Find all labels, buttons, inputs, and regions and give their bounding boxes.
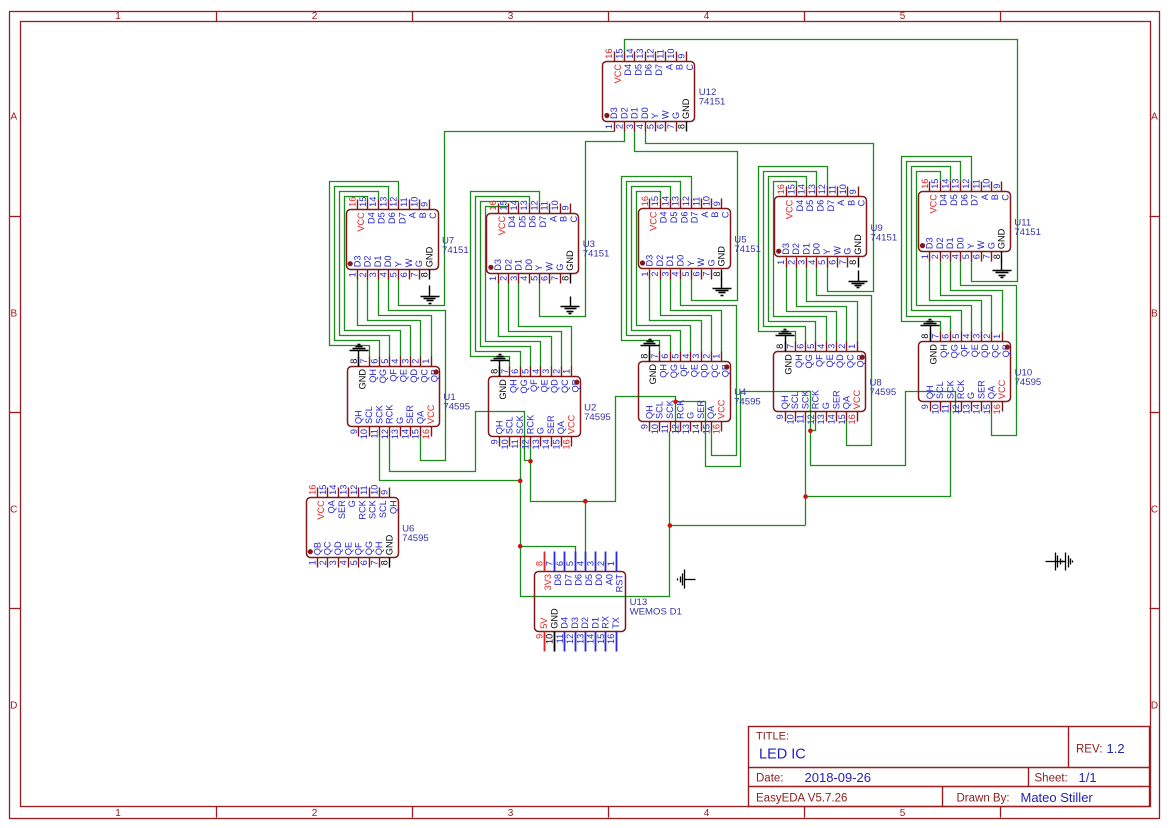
svg-text:9: 9: [380, 490, 390, 495]
svg-text:A: A: [548, 215, 558, 222]
svg-text:QE: QE: [343, 542, 353, 555]
svg-text:74595: 74595: [443, 402, 470, 413]
svg-text:QH: QH: [644, 405, 654, 419]
svg-text:1: 1: [308, 560, 318, 565]
svg-text:QH: QH: [388, 500, 398, 514]
svg-text:13: 13: [951, 179, 961, 189]
svg-text:GND: GND: [565, 250, 575, 271]
svg-text:7: 7: [500, 369, 510, 374]
svg-text:9: 9: [676, 54, 686, 59]
svg-text:C: C: [428, 212, 438, 219]
svg-text:1: 1: [847, 344, 857, 349]
svg-text:QH: QH: [368, 369, 378, 383]
svg-text:QF: QF: [679, 364, 689, 377]
svg-text:Y: Y: [534, 265, 544, 271]
svg-text:8: 8: [380, 560, 390, 565]
svg-text:Date:: Date:: [756, 773, 784, 785]
svg-text:D1: D1: [945, 237, 955, 249]
svg-text:QC: QC: [845, 354, 855, 368]
svg-text:D3: D3: [925, 237, 935, 249]
svg-text:16: 16: [640, 196, 650, 206]
svg-text:6: 6: [359, 560, 369, 565]
svg-text:QH: QH: [354, 410, 364, 424]
svg-text:9: 9: [992, 184, 1002, 189]
svg-text:3: 3: [328, 560, 338, 565]
svg-text:VCC: VCC: [316, 500, 326, 520]
svg-text:D7: D7: [970, 194, 980, 206]
svg-text:1: 1: [488, 276, 498, 281]
svg-text:QG: QG: [804, 354, 814, 368]
svg-text:QE: QE: [825, 354, 835, 367]
svg-text:G: G: [706, 259, 716, 266]
svg-text:D5: D5: [669, 212, 679, 224]
svg-text:Mateo Stiller: Mateo Stiller: [1021, 790, 1094, 805]
svg-text:12: 12: [389, 197, 399, 207]
svg-text:D5: D5: [517, 216, 527, 228]
svg-text:4: 4: [704, 808, 710, 819]
svg-text:D2: D2: [935, 237, 945, 249]
svg-text:RST: RST: [615, 574, 625, 593]
svg-text:2: 2: [318, 560, 328, 565]
svg-text:14: 14: [541, 439, 551, 449]
svg-text:QE: QE: [539, 379, 549, 392]
svg-text:14: 14: [797, 184, 807, 194]
svg-text:1: 1: [640, 272, 650, 277]
svg-text:7: 7: [359, 359, 369, 364]
svg-text:B: B: [10, 309, 17, 320]
svg-text:D5: D5: [584, 574, 594, 586]
svg-text:1: 1: [562, 369, 572, 374]
svg-text:D5: D5: [805, 200, 815, 212]
svg-text:QA: QA: [987, 385, 997, 399]
svg-text:74151: 74151: [734, 244, 761, 255]
svg-text:5: 5: [900, 11, 906, 22]
svg-text:B: B: [990, 194, 1000, 200]
svg-text:G: G: [986, 242, 996, 249]
svg-text:D1: D1: [801, 243, 811, 255]
svg-text:13: 13: [807, 184, 817, 194]
svg-text:16: 16: [348, 197, 358, 207]
svg-text:D3: D3: [609, 107, 619, 119]
svg-text:QH: QH: [925, 385, 935, 399]
svg-text:GND: GND: [929, 344, 939, 365]
svg-text:D0: D0: [524, 259, 534, 271]
svg-text:W: W: [832, 246, 842, 255]
svg-text:D4: D4: [560, 617, 570, 629]
svg-text:QF: QF: [354, 542, 364, 555]
svg-text:10: 10: [409, 197, 419, 207]
svg-text:VCC: VCC: [997, 379, 1007, 399]
svg-text:3: 3: [797, 260, 807, 265]
svg-text:D4: D4: [939, 194, 949, 206]
svg-text:D1: D1: [630, 107, 640, 119]
svg-text:7: 7: [930, 334, 940, 339]
svg-text:QC: QC: [323, 541, 333, 555]
svg-text:D6: D6: [679, 212, 689, 224]
svg-text:GND: GND: [717, 246, 727, 267]
svg-text:SCL: SCL: [505, 416, 515, 434]
svg-text:D2: D2: [655, 255, 665, 267]
svg-text:12: 12: [817, 184, 827, 194]
svg-text:3: 3: [541, 369, 551, 374]
svg-text:10: 10: [650, 424, 660, 434]
svg-text:D4: D4: [795, 200, 805, 212]
svg-text:15: 15: [930, 179, 940, 189]
svg-text:15: 15: [786, 184, 796, 194]
svg-text:G: G: [555, 264, 565, 271]
svg-text:11: 11: [828, 185, 838, 195]
svg-text:G: G: [395, 417, 405, 424]
svg-text:14: 14: [509, 200, 519, 210]
svg-text:W: W: [404, 258, 414, 267]
svg-text:8: 8: [775, 344, 785, 349]
svg-text:14: 14: [940, 179, 950, 189]
svg-text:D5: D5: [949, 194, 959, 206]
svg-text:GND: GND: [549, 608, 559, 629]
svg-text:QE: QE: [970, 344, 980, 357]
svg-text:13: 13: [961, 404, 971, 414]
svg-text:D7: D7: [654, 64, 664, 76]
svg-text:G: G: [843, 248, 853, 255]
svg-text:4: 4: [951, 254, 961, 259]
svg-text:2018-09-26: 2018-09-26: [805, 770, 872, 785]
svg-text:3: 3: [368, 272, 378, 277]
svg-text:4: 4: [378, 272, 388, 277]
svg-text:6: 6: [555, 561, 565, 566]
svg-text:GND: GND: [997, 228, 1007, 249]
svg-text:1: 1: [604, 124, 614, 129]
svg-text:9: 9: [490, 439, 500, 444]
svg-text:4: 4: [807, 260, 817, 265]
svg-text:D1: D1: [373, 255, 383, 267]
svg-text:5: 5: [806, 344, 816, 349]
svg-text:4: 4: [635, 124, 645, 129]
svg-text:SER: SER: [831, 390, 841, 409]
svg-text:SCL: SCL: [364, 406, 374, 424]
svg-text:9: 9: [420, 202, 430, 207]
svg-text:5: 5: [681, 272, 691, 277]
svg-text:9: 9: [920, 404, 930, 409]
svg-text:D2: D2: [791, 243, 801, 255]
svg-text:D6: D6: [816, 200, 826, 212]
svg-text:B: B: [559, 216, 569, 222]
svg-text:2: 2: [551, 369, 561, 374]
svg-text:QG: QG: [949, 344, 959, 358]
svg-text:C: C: [1001, 194, 1011, 201]
svg-text:5: 5: [951, 334, 961, 339]
svg-text:C: C: [10, 505, 17, 516]
svg-text:1/1: 1/1: [1079, 770, 1097, 785]
svg-text:QH: QH: [494, 420, 504, 434]
svg-text:D7: D7: [563, 574, 573, 586]
svg-text:8: 8: [676, 124, 686, 129]
svg-text:3: 3: [660, 272, 670, 277]
svg-text:4: 4: [681, 354, 691, 359]
svg-text:GND: GND: [424, 246, 434, 267]
svg-text:D3: D3: [645, 255, 655, 267]
svg-text:D5: D5: [377, 212, 387, 224]
svg-text:5V: 5V: [539, 617, 549, 629]
svg-text:4: 4: [671, 272, 681, 277]
svg-text:C: C: [685, 64, 695, 71]
svg-text:C: C: [1151, 505, 1158, 516]
svg-text:SCK: SCK: [800, 389, 810, 409]
svg-text:7: 7: [409, 272, 419, 277]
svg-text:A: A: [1151, 112, 1158, 123]
svg-text:REV:: REV:: [1076, 744, 1102, 756]
svg-text:15: 15: [551, 439, 561, 449]
svg-text:8: 8: [712, 272, 722, 277]
svg-text:W: W: [976, 240, 986, 249]
svg-text:SER: SER: [976, 380, 986, 399]
svg-text:D: D: [10, 701, 17, 712]
svg-text:14: 14: [660, 196, 670, 206]
svg-text:D6: D6: [959, 194, 969, 206]
svg-text:RCK: RCK: [811, 389, 821, 409]
svg-text:11: 11: [971, 179, 981, 189]
svg-text:RX: RX: [601, 616, 611, 629]
svg-text:7: 7: [785, 344, 795, 349]
svg-text:13: 13: [635, 48, 645, 58]
svg-text:11: 11: [555, 634, 565, 644]
svg-text:1: 1: [115, 11, 121, 22]
svg-text:D7: D7: [690, 212, 700, 224]
svg-text:2: 2: [596, 561, 606, 566]
svg-text:8: 8: [920, 334, 930, 339]
svg-text:QG: QG: [519, 379, 529, 393]
svg-text:2: 2: [358, 272, 368, 277]
svg-text:9: 9: [534, 634, 544, 639]
svg-text:16: 16: [992, 404, 1002, 414]
svg-text:74595: 74595: [584, 412, 611, 423]
svg-text:11: 11: [941, 404, 951, 414]
svg-text:5: 5: [671, 354, 681, 359]
svg-text:74151: 74151: [583, 249, 610, 260]
svg-text:C: C: [569, 215, 579, 222]
svg-text:6: 6: [510, 369, 520, 374]
svg-text:7: 7: [650, 354, 660, 359]
svg-text:G: G: [536, 427, 546, 434]
svg-text:10: 10: [500, 439, 510, 449]
svg-text:5: 5: [565, 561, 575, 566]
svg-text:74151: 74151: [699, 97, 726, 108]
svg-text:QD: QD: [550, 379, 560, 393]
svg-text:A0: A0: [604, 574, 614, 585]
svg-text:6: 6: [370, 359, 380, 364]
svg-text:QE: QE: [399, 369, 409, 382]
svg-text:D5: D5: [633, 64, 643, 76]
svg-text:VCC: VCC: [928, 194, 938, 214]
svg-text:D0: D0: [676, 255, 686, 267]
svg-text:16: 16: [606, 634, 616, 644]
svg-text:6: 6: [656, 124, 666, 129]
svg-text:8: 8: [640, 354, 650, 359]
svg-text:SCK: SCK: [946, 379, 956, 399]
svg-text:9: 9: [640, 424, 650, 429]
svg-text:GND: GND: [385, 534, 395, 555]
svg-text:2: 2: [312, 11, 318, 22]
svg-text:16: 16: [847, 414, 857, 424]
svg-text:12: 12: [349, 485, 359, 495]
svg-text:GND: GND: [784, 354, 794, 375]
svg-text:A: A: [980, 193, 990, 200]
svg-text:4: 4: [961, 334, 971, 339]
svg-text:1: 1: [115, 808, 121, 819]
svg-text:12: 12: [806, 414, 816, 424]
svg-text:12: 12: [380, 429, 390, 439]
svg-text:6: 6: [691, 272, 701, 277]
svg-text:VCC: VCC: [426, 404, 436, 424]
svg-text:6: 6: [828, 260, 838, 265]
svg-text:QF: QF: [960, 344, 970, 357]
svg-text:QH: QH: [509, 379, 519, 393]
svg-text:D2: D2: [619, 107, 629, 119]
svg-text:5: 5: [389, 272, 399, 277]
svg-text:9: 9: [560, 205, 570, 210]
svg-text:5: 5: [645, 124, 655, 129]
svg-text:5: 5: [349, 560, 359, 565]
svg-text:QD: QD: [409, 369, 419, 383]
svg-text:11: 11: [359, 485, 369, 495]
svg-text:G: G: [821, 402, 831, 409]
svg-text:15: 15: [318, 485, 328, 495]
svg-text:QG: QG: [378, 369, 388, 383]
svg-text:6: 6: [540, 276, 550, 281]
svg-text:A: A: [664, 63, 674, 70]
svg-text:SCK: SCK: [665, 399, 675, 419]
svg-text:2: 2: [930, 254, 940, 259]
svg-text:10: 10: [702, 196, 712, 206]
svg-text:8: 8: [490, 369, 500, 374]
svg-text:15: 15: [650, 196, 660, 206]
svg-text:7: 7: [666, 124, 676, 129]
svg-text:LED IC: LED IC: [759, 747, 806, 763]
svg-text:C: C: [721, 211, 731, 218]
svg-text:13: 13: [339, 485, 349, 495]
svg-text:SER: SER: [337, 500, 347, 519]
svg-text:10: 10: [666, 48, 676, 58]
svg-text:G: G: [414, 260, 424, 267]
svg-text:10: 10: [982, 179, 992, 189]
svg-text:VCC: VCC: [717, 399, 727, 419]
svg-text:GND: GND: [681, 98, 691, 119]
svg-text:D0: D0: [383, 255, 393, 267]
svg-text:1: 1: [421, 359, 431, 364]
svg-text:Y: Y: [650, 113, 660, 119]
svg-text:12: 12: [565, 634, 575, 644]
svg-text:QF: QF: [529, 379, 539, 392]
svg-text:13: 13: [378, 197, 388, 207]
svg-text:D2: D2: [363, 255, 373, 267]
svg-text:13: 13: [671, 196, 681, 206]
svg-text:GND: GND: [358, 369, 368, 390]
svg-text:8: 8: [848, 260, 858, 265]
svg-text:4: 4: [531, 369, 541, 374]
svg-text:D3: D3: [570, 617, 580, 629]
svg-text:3V3: 3V3: [543, 574, 553, 590]
svg-text:3: 3: [972, 334, 982, 339]
svg-text:5: 5: [521, 369, 531, 374]
svg-text:16: 16: [562, 439, 572, 449]
svg-text:Y: Y: [394, 261, 404, 267]
svg-text:RCK: RCK: [385, 404, 395, 424]
svg-text:4: 4: [519, 276, 529, 281]
svg-text:QB: QB: [312, 542, 322, 555]
svg-text:G: G: [671, 112, 681, 119]
svg-text:Y: Y: [966, 243, 976, 249]
svg-text:D1: D1: [514, 259, 524, 271]
svg-text:VCC: VCC: [785, 199, 795, 219]
svg-text:2: 2: [312, 808, 318, 819]
svg-text:12: 12: [529, 200, 539, 210]
svg-text:11: 11: [510, 439, 520, 449]
svg-text:13: 13: [575, 634, 585, 644]
svg-text:QF: QF: [388, 369, 398, 382]
svg-text:D4: D4: [366, 212, 376, 224]
svg-text:QD: QD: [835, 354, 845, 368]
svg-text:15: 15: [411, 429, 421, 439]
svg-text:12: 12: [521, 439, 531, 449]
svg-text:QC: QC: [991, 344, 1001, 358]
svg-text:W: W: [545, 262, 555, 271]
svg-text:2: 2: [650, 272, 660, 277]
svg-text:SER: SER: [405, 405, 415, 424]
svg-text:D8: D8: [553, 574, 563, 586]
svg-text:12: 12: [645, 48, 655, 58]
svg-text:QG: QG: [669, 364, 679, 378]
svg-text:2: 2: [499, 276, 509, 281]
svg-text:D7: D7: [397, 212, 407, 224]
svg-text:QG: QG: [364, 541, 374, 555]
svg-text:D6: D6: [574, 574, 584, 586]
svg-text:5: 5: [380, 359, 390, 364]
svg-text:5: 5: [900, 808, 906, 819]
svg-text:RCK: RCK: [357, 499, 367, 519]
svg-text:12: 12: [671, 424, 681, 434]
svg-text:11: 11: [656, 49, 666, 59]
svg-text:14: 14: [625, 48, 635, 58]
svg-text:GND: GND: [648, 364, 658, 385]
svg-text:SCK: SCK: [515, 414, 525, 434]
svg-text:Sheet:: Sheet:: [1035, 773, 1068, 785]
svg-text:5: 5: [529, 276, 539, 281]
svg-text:QH: QH: [374, 541, 384, 555]
svg-text:14: 14: [400, 429, 410, 439]
svg-text:12: 12: [951, 404, 961, 414]
svg-text:2: 2: [837, 344, 847, 349]
svg-text:SCL: SCL: [378, 500, 388, 518]
svg-text:10: 10: [930, 404, 940, 414]
svg-text:G: G: [347, 500, 357, 507]
svg-text:6: 6: [796, 344, 806, 349]
svg-text:9: 9: [775, 414, 785, 419]
svg-text:4: 4: [816, 344, 826, 349]
svg-text:7: 7: [369, 560, 379, 565]
svg-text:A: A: [700, 211, 710, 218]
svg-text:10: 10: [785, 414, 795, 424]
svg-text:D0: D0: [594, 574, 604, 586]
svg-text:10: 10: [369, 485, 379, 495]
svg-text:7: 7: [982, 254, 992, 259]
svg-text:EasyEDA V5.7.26: EasyEDA V5.7.26: [756, 793, 847, 805]
svg-text:6: 6: [660, 354, 670, 359]
svg-text:8: 8: [992, 254, 1002, 259]
svg-text:D4: D4: [623, 64, 633, 76]
svg-text:QC: QC: [710, 364, 720, 378]
svg-text:74595: 74595: [870, 387, 897, 398]
svg-text:SCK: SCK: [374, 404, 384, 424]
svg-text:QH: QH: [659, 364, 669, 378]
